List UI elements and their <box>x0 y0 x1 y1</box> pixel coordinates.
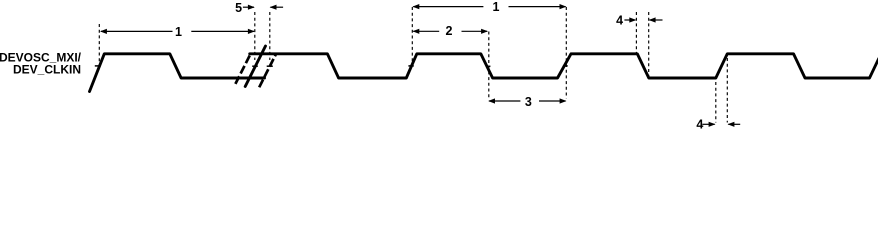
node mid-level tick at late jitter edge <box>267 65 273 67</box>
wire dashed extension line at x=715.8 (rise start corner) <box>715 82 717 123</box>
node mid-level tick at third rising edge <box>408 65 413 67</box>
wire dashed extension line at x=412.3 (rising edge for measures 1 and 2) <box>411 7 413 64</box>
wire nominal (solid) jitter rising edge <box>245 46 265 87</box>
signal name label DEVOSC_MXI/DEV_CLKIN <box>0 51 82 77</box>
wire dashed extension line at x=636.4 (fall start corner) <box>635 12 637 53</box>
node mid-level tick at fourth rising edge <box>563 65 568 67</box>
wire waveform main solid trace: from jitter cluster high plateau to right edge <box>250 54 878 78</box>
wire dashed extension line at x=727.3 (rise end corner) <box>726 58 728 123</box>
svg-text:1: 1 <box>493 0 500 14</box>
wire dashed extension line at x=488.8 (falling edge for measures 2 and 3) <box>488 32 490 99</box>
wire early jitter rising edge (dashed) <box>235 54 250 84</box>
dimension 4 (rise time measure, bottom) arrows <box>702 122 740 127</box>
svg-text:4: 4 <box>696 118 703 132</box>
node mid-level tick at falling edge of pulse 2 <box>486 65 490 67</box>
svg-text:5: 5 <box>235 1 242 15</box>
wire dashed extension line at x=254.8 (nominal edge, jitter left bound) <box>254 12 256 60</box>
wire dashed extension line at x=566.3 (rising edge for measures 1 and 3) <box>565 7 567 99</box>
dimension 1 (top period measure) arrow line <box>412 4 566 9</box>
wire dashed extension line at x=99 (cycle start) <box>98 24 100 62</box>
wire dashed extension line at x=269.8 (late edge, jitter right bound) <box>269 12 271 60</box>
dimension 4 (fall time measure, top) arrows <box>624 17 662 22</box>
dimension 2 (pulse high measure) arrow line <box>412 29 488 34</box>
node mid-level tick at first rising edge <box>95 65 101 67</box>
svg-text:4: 4 <box>616 13 623 27</box>
svg-text:1: 1 <box>175 25 182 39</box>
wire late jitter rising edge (dashed) <box>259 54 276 88</box>
dimension 1 (left period measure) arrow line <box>100 29 255 34</box>
dimension 5 (jitter measure) arrows <box>243 5 283 10</box>
svg-text:2: 2 <box>446 24 453 38</box>
dimension 3 (pulse low measure) arrow line <box>488 98 566 103</box>
svg-text:DEV_CLKIN: DEV_CLKIN <box>13 63 81 77</box>
wire waveform main solid trace: first rising edge, high, fall, low under jitter cluster <box>90 54 265 92</box>
wire dashed extension line at x=648.7 (fall end corner) <box>648 12 650 77</box>
svg-text:3: 3 <box>525 95 532 109</box>
node mid-level tick at nominal jitter edge <box>252 65 258 67</box>
